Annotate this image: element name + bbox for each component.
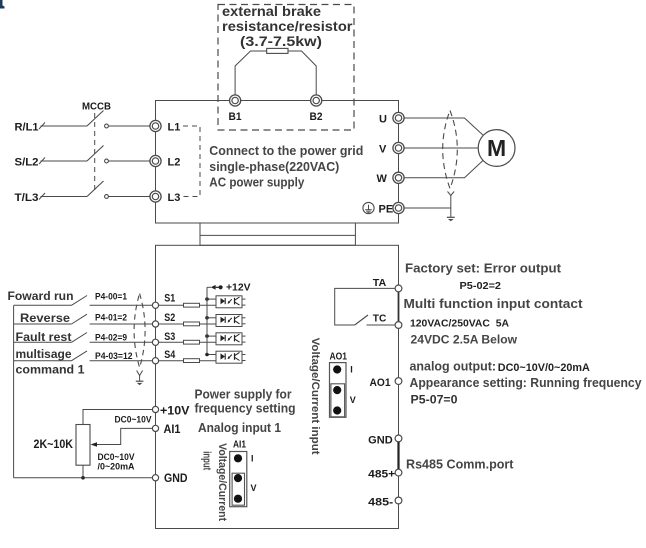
svg-text:single-phase(220VAC): single-phase(220VAC) [209, 160, 339, 174]
svg-text:GND: GND [164, 473, 188, 485]
svg-text:S1: S1 [164, 293, 175, 305]
breaker contact R/L1 [105, 124, 109, 128]
svg-text:(3.7-7.5kw): (3.7-7.5kw) [240, 34, 322, 49]
AI1 jumper cap (V position) [232, 473, 244, 505]
svg-text:+12V: +12V [226, 282, 251, 294]
switch blade multisage [72, 351, 88, 361]
AO1 jumper block outline [330, 363, 347, 418]
svg-text:R/L1: R/L1 [15, 122, 39, 134]
MCCB mechanical linkage (dashed) [94, 113, 96, 190]
relay contact wiring TA side [335, 288, 396, 325]
terminal GND (right) [395, 435, 402, 442]
optocoupler S3 [216, 333, 242, 345]
wire multisage common side [14, 360, 72, 362]
AO1 pin I [333, 365, 341, 373]
svg-text:Appearance setting: Running fr: Appearance setting: Running frequency [410, 376, 642, 390]
svg-text:U: U [379, 114, 387, 126]
svg-text:Foward run: Foward run [8, 289, 74, 303]
terminal GND (left) [152, 475, 158, 481]
wire Fault rest common side [14, 341, 72, 343]
terminal +10V [152, 406, 158, 412]
terminal S3 [152, 339, 158, 345]
motor cable shield (dashed lens) [443, 111, 458, 189]
optocoupler S3 output stubs [242, 335, 246, 337]
wiper wire AI1 to potentiometer [93, 428, 152, 444]
input resistor S2 [184, 322, 200, 326]
terminal AI1 [152, 425, 158, 431]
wire +12V bus to optocoupler S3 [207, 335, 216, 337]
wire S/L2 lead-in with terminal slash [41, 160, 88, 162]
wire terminal to resistor S4 [159, 360, 184, 362]
svg-text:B2: B2 [310, 111, 323, 123]
shield drain wire (motor side) [448, 192, 455, 196]
svg-text:AO1: AO1 [370, 377, 391, 389]
svg-text:Voltage/Current: Voltage/Current [216, 443, 228, 521]
optocoupler S2 [216, 315, 242, 327]
wire P4-00=1 to terminal S1 [90, 304, 153, 306]
potentiometer 2K~10K body [76, 425, 90, 466]
terminal B2 [311, 95, 322, 106]
svg-text:analog output:: analog output: [410, 359, 497, 373]
svg-text:Power supply for: Power supply for [195, 388, 292, 402]
svg-text:AI1: AI1 [164, 424, 182, 436]
wire Reverse common side [14, 323, 72, 325]
input resistor S3 [184, 340, 200, 344]
wire P4-01=2 to terminal S2 [90, 323, 153, 325]
terminal V [393, 142, 404, 153]
svg-text:B1: B1 [229, 111, 242, 123]
optocoupler S1 [216, 296, 242, 308]
wire terminal to resistor S1 [159, 304, 184, 306]
wire terminal to resistor S3 [159, 341, 184, 343]
page icon (cropped, top-left) [0, 0, 5, 9]
wire R/L1 lead-in with terminal slash [41, 125, 88, 127]
wire resistor to B2 [288, 51, 316, 95]
svg-text:command 1: command 1 [16, 362, 85, 376]
svg-text:multisage: multisage [16, 347, 72, 361]
+12V bus [206, 287, 208, 354]
svg-text:120VAC/250VAC 5A: 120VAC/250VAC 5A [410, 318, 509, 330]
motor M [478, 130, 515, 167]
breaker contact T/L3 [105, 195, 109, 199]
svg-text:+10V: +10V [160, 405, 190, 417]
svg-text:L3: L3 [168, 192, 181, 204]
svg-text:GND: GND [368, 435, 393, 447]
wire resistor to optocoupler S1 [200, 304, 217, 306]
wire PE to shield ground [404, 207, 451, 209]
wire +12V bus to optocoupler S4 [207, 354, 216, 356]
svg-text:input: input [200, 451, 212, 470]
+12V supply tap [207, 286, 211, 288]
svg-text:Multi function input contact: Multi function input contact [404, 296, 584, 311]
wire W to motor [404, 160, 483, 177]
terminal PE [393, 202, 404, 213]
wire +10V to potentiometer top [83, 410, 152, 425]
svg-text:485-: 485- [368, 496, 393, 508]
terminal S1 [152, 302, 158, 308]
input resistor S1 [184, 303, 200, 307]
svg-text:S4: S4 [164, 349, 176, 361]
svg-text:L1: L1 [168, 122, 181, 134]
breaker blade S/L2 [87, 146, 104, 162]
wire contact to L3 [109, 196, 151, 198]
AI1 jumper block outline [230, 452, 247, 507]
svg-text:P4-00=1: P4-00=1 [95, 292, 128, 303]
wire Foward run common side [14, 304, 72, 306]
AO1 jumper cap (V position) [331, 384, 345, 417]
relay contact wiring TC side [367, 324, 396, 326]
ground symbol (input cable shield) [136, 380, 144, 382]
bold wire TA to TC [398, 292, 400, 322]
protective earth symbol by PE [363, 202, 374, 213]
wire resistor to B1 [235, 51, 267, 95]
wire V to motor [404, 147, 478, 149]
wire T/L3 lead-in with terminal slash [41, 196, 88, 198]
inverter power block [156, 101, 399, 224]
switch blade Reverse [72, 314, 88, 324]
dashed bracket L1..L3 [183, 126, 200, 197]
junction: potentiometer to GND wire [81, 476, 85, 480]
terminal 485+ [395, 469, 402, 476]
AI1 pin V [234, 495, 242, 503]
terminal B1 [230, 95, 241, 106]
wire +12V bus to optocoupler S2 [207, 317, 216, 319]
svg-text:I: I [251, 454, 254, 464]
svg-text:S/L2: S/L2 [15, 157, 39, 169]
svg-text:M: M [487, 135, 506, 161]
svg-text:V: V [379, 144, 387, 156]
terminal S4 [152, 358, 158, 364]
terminal L1 [150, 120, 161, 131]
svg-text:external brake: external brake [222, 4, 322, 19]
AI1 pin mid [234, 474, 242, 482]
svg-text:PE: PE [379, 204, 394, 216]
wire contact to L2 [109, 160, 151, 162]
svg-text:Rs485 Comm.port: Rs485 Comm.port [406, 457, 514, 471]
svg-text:AO1: AO1 [330, 350, 348, 362]
brake resistor RB [267, 48, 288, 53]
bold wire GND to 485+ [397, 442, 399, 469]
terminal TC [395, 322, 402, 329]
wire resistor to optocoupler S4 [200, 360, 217, 362]
terminal U [393, 112, 404, 123]
chassis neck mid line [200, 234, 355, 236]
terminal W [393, 172, 404, 183]
chassis neck between blocks [200, 223, 355, 245]
svg-text:DC0~10V/0~20mA: DC0~10V/0~20mA [498, 362, 590, 374]
optocoupler S2 output stubs [242, 317, 246, 319]
wire P4-02=9 to terminal S3 [90, 341, 153, 343]
svg-text:T/L3: T/L3 [15, 192, 39, 204]
svg-text:S3: S3 [164, 331, 175, 343]
terminal TA [395, 285, 402, 292]
ground symbol (motor cable shield) [447, 216, 455, 218]
svg-text:I: I [350, 364, 353, 374]
svg-text:AI1: AI1 [233, 439, 246, 451]
terminal 485- [395, 497, 402, 504]
switch blade Foward run [72, 296, 88, 306]
wire potentiometer bottom to common [82, 465, 84, 478]
wire resistor to optocoupler S2 [200, 323, 217, 325]
AO1 pin mid [333, 386, 341, 394]
shield drain wire (input side) [137, 371, 143, 376]
svg-text:TA: TA [373, 277, 387, 289]
switch blade Fault rest [72, 333, 88, 343]
AO1 pin V [333, 406, 341, 414]
wire common bus to GND terminal [14, 477, 153, 479]
breaker blade T/L3 [87, 181, 104, 197]
wire U to motor [404, 118, 483, 135]
svg-text:MCCB: MCCB [82, 101, 111, 113]
svg-text:frequency setting: frequency setting [195, 402, 296, 416]
svg-text:Voltage/Current input: Voltage/Current input [309, 338, 321, 455]
terminal L2 [150, 155, 161, 166]
control block [156, 245, 399, 528]
svg-text:W: W [377, 173, 388, 185]
svg-text:/0~20mA: /0~20mA [98, 461, 135, 471]
svg-text:V: V [350, 395, 356, 405]
svg-text:Connect to the power grid: Connect to the power grid [209, 144, 363, 158]
svg-text:485+: 485+ [368, 469, 395, 481]
svg-text:DC0~10V: DC0~10V [115, 415, 152, 425]
optocoupler S4 [216, 351, 242, 363]
svg-text:P5-02=2: P5-02=2 [460, 280, 502, 292]
svg-text:Analog input 1: Analog input 1 [198, 421, 281, 435]
common return bus (left) [13, 306, 15, 478]
svg-text:Reverse: Reverse [20, 311, 70, 325]
input cable shield (dashed lens) [134, 294, 145, 368]
svg-text:24VDC 2.5A Below: 24VDC 2.5A Below [411, 333, 518, 347]
svg-text:resistance/resistor: resistance/resistor [222, 19, 353, 34]
external brake resistor dashed box [218, 5, 354, 131]
svg-text:V: V [251, 483, 257, 493]
svg-text:P4-01=2: P4-01=2 [95, 313, 127, 324]
AI1 pin I [234, 454, 242, 462]
input resistor S4 [184, 359, 200, 363]
wire resistor to optocoupler S3 [200, 341, 217, 343]
svg-text:P5-07=0: P5-07=0 [411, 393, 458, 407]
svg-text:TC: TC [373, 312, 387, 324]
breaker blade R/L1 [87, 111, 104, 127]
relay blade [355, 315, 368, 325]
optocoupler S1 output stubs [242, 298, 246, 300]
terminal AO1 [395, 378, 402, 385]
wire contact to L1 [109, 125, 151, 127]
wire terminal to resistor S2 [159, 323, 184, 325]
svg-text:L2: L2 [168, 157, 181, 169]
optocoupler S4 output stubs [242, 354, 246, 356]
wire P4-03=12 to terminal S4 [90, 360, 153, 362]
svg-text:AC power supply: AC power supply [209, 175, 304, 189]
terminal S2 [152, 321, 158, 327]
svg-text:2K~10K: 2K~10K [34, 439, 74, 451]
breaker contact S/L2 [105, 159, 109, 163]
svg-text:Factory set: Error output: Factory set: Error output [405, 262, 562, 276]
terminal L3 [150, 191, 161, 202]
svg-text:S2: S2 [164, 312, 175, 324]
wire +12V bus to optocoupler S1 [207, 298, 216, 300]
